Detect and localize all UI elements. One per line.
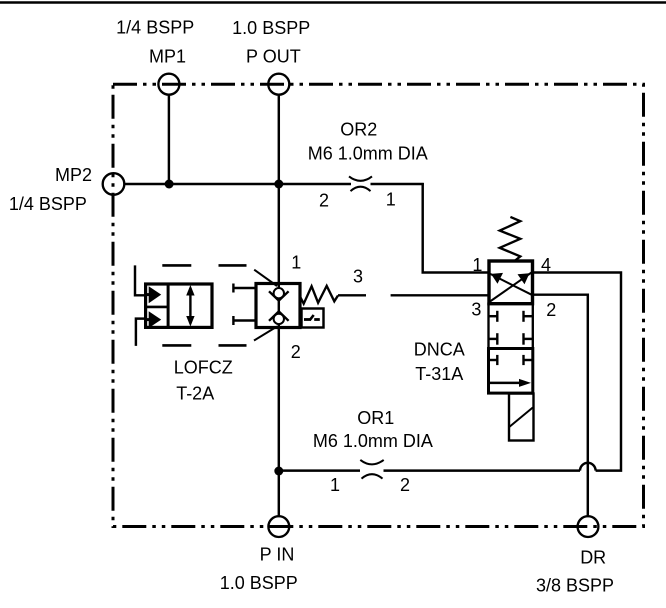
closed port mark lower bbox=[232, 316, 234, 325]
svg-text:M6 1.0mm DIA: M6 1.0mm DIA bbox=[313, 431, 433, 451]
svg-text:3: 3 bbox=[471, 300, 481, 320]
svg-text:MP1: MP1 bbox=[149, 47, 186, 67]
port P IN bbox=[268, 516, 289, 537]
svg-text:LOFCZ: LOFCZ bbox=[174, 358, 233, 378]
actuation arrow bbox=[490, 382, 524, 384]
junction dot at MP1/gallery bbox=[165, 180, 174, 189]
pilot diagonal lower bbox=[254, 327, 277, 341]
svg-text:P IN: P IN bbox=[260, 545, 295, 565]
wire: pilot line to DNCA port 3 bbox=[391, 294, 489, 296]
wire: main gallery MP2 to OR2 bbox=[125, 183, 352, 185]
manifold boundary (dash-dot border) bbox=[113, 84, 644, 526]
port P OUT bbox=[268, 74, 289, 95]
main stage box bbox=[256, 284, 300, 328]
spring bbox=[500, 217, 521, 261]
svg-text:T-2A: T-2A bbox=[176, 384, 214, 404]
svg-text:M6 1.0mm DIA: M6 1.0mm DIA bbox=[308, 144, 428, 164]
flow path 3 to 4 bbox=[490, 273, 532, 302]
svg-text:1: 1 bbox=[472, 255, 482, 275]
blocked port marks row 1 bbox=[489, 315, 498, 317]
dashed boundary bottom bbox=[162, 344, 246, 347]
svg-text:P OUT: P OUT bbox=[246, 47, 301, 67]
blocked port marks row 2 bbox=[489, 338, 498, 340]
divider bbox=[167, 284, 170, 327]
wire: junction down to P IN port bbox=[278, 471, 280, 516]
actuator box bbox=[489, 349, 533, 394]
check poppet lower bbox=[274, 314, 284, 324]
svg-text:T-31A: T-31A bbox=[415, 364, 463, 384]
svg-text:4: 4 bbox=[541, 255, 551, 275]
cell split bbox=[146, 306, 169, 309]
junction dot at P IN/OR1 bbox=[274, 467, 283, 476]
position box (blocked) bbox=[489, 304, 533, 349]
top rule bbox=[0, 1, 666, 4]
svg-text:OR2: OR2 bbox=[340, 120, 377, 140]
wire: OR1 orifice to hop bbox=[384, 469, 581, 471]
orifice box bbox=[302, 309, 324, 328]
solenoid bbox=[509, 394, 534, 441]
valve LOFCZ T-2A bbox=[135, 265, 338, 346]
wire: OR2 to corner bbox=[371, 183, 424, 185]
wire: LOFCZ port 3 stub bbox=[338, 294, 366, 296]
spring bbox=[300, 286, 338, 304]
orifice OR2 bbox=[349, 176, 372, 191]
position box (crossed) bbox=[489, 261, 533, 304]
wire: LOFCZ port 2 down to P IN junction bbox=[278, 324, 280, 471]
blocked marks row 3 bbox=[490, 359, 498, 361]
wire: corner down to DNCA port 1 level bbox=[423, 183, 489, 273]
svg-text:1: 1 bbox=[386, 190, 396, 210]
dashed boundary top bbox=[162, 264, 246, 267]
pilot diagonal upper bbox=[254, 270, 277, 286]
svg-text:1.0 BSPP: 1.0 BSPP bbox=[220, 573, 298, 593]
flow path 2 to 1 bbox=[490, 274, 532, 295]
svg-text:2: 2 bbox=[291, 342, 301, 362]
wire: crossover hop over drain line bbox=[580, 463, 596, 471]
pilot arrow upper bbox=[149, 286, 162, 303]
svg-text:1: 1 bbox=[330, 475, 340, 495]
closed port mark upper bbox=[232, 284, 234, 293]
wire: MP1 drop bbox=[168, 95, 170, 184]
svg-text:2: 2 bbox=[400, 475, 410, 495]
orifice OR1 bbox=[360, 460, 383, 479]
svg-text:1: 1 bbox=[291, 253, 301, 273]
svg-text:2: 2 bbox=[546, 300, 556, 320]
wire: DNCA port 2 to DR bbox=[533, 295, 588, 516]
pilot arrow lower bbox=[149, 311, 162, 328]
pilot bracket lower bbox=[136, 319, 146, 346]
port MP1 bbox=[158, 74, 179, 95]
wire: OR1 line P IN junction to orifice bbox=[279, 469, 360, 471]
wire: P OUT drop to LOFCZ bbox=[278, 95, 280, 288]
check poppet upper bbox=[274, 288, 284, 298]
svg-text:1/4 BSPP: 1/4 BSPP bbox=[116, 18, 194, 38]
port MP2 bbox=[103, 173, 125, 195]
svg-text:OR1: OR1 bbox=[357, 408, 394, 428]
svg-text:3: 3 bbox=[353, 267, 363, 287]
pilot bracket upper bbox=[135, 265, 146, 295]
wire: between check poppets bbox=[278, 300, 280, 312]
svg-text:MP2: MP2 bbox=[55, 165, 92, 185]
port DR bbox=[578, 516, 599, 537]
svg-text:DNCA: DNCA bbox=[414, 340, 465, 360]
wire: hop to corner, up to DNCA port 4 bbox=[533, 273, 622, 471]
position box (alternate) bbox=[146, 284, 212, 327]
svg-text:1/4 BSPP: 1/4 BSPP bbox=[9, 194, 87, 214]
junction dot at P OUT/gallery bbox=[274, 180, 283, 189]
spool double arrow bbox=[189, 288, 191, 324]
valve DNCA T-31A bbox=[489, 217, 534, 441]
svg-text:1.0 BSPP: 1.0 BSPP bbox=[232, 18, 310, 38]
svg-text:DR: DR bbox=[580, 548, 606, 568]
svg-text:3/8 BSPP: 3/8 BSPP bbox=[536, 576, 614, 596]
orifice mark bbox=[304, 318, 311, 321]
svg-text:2: 2 bbox=[319, 191, 329, 211]
